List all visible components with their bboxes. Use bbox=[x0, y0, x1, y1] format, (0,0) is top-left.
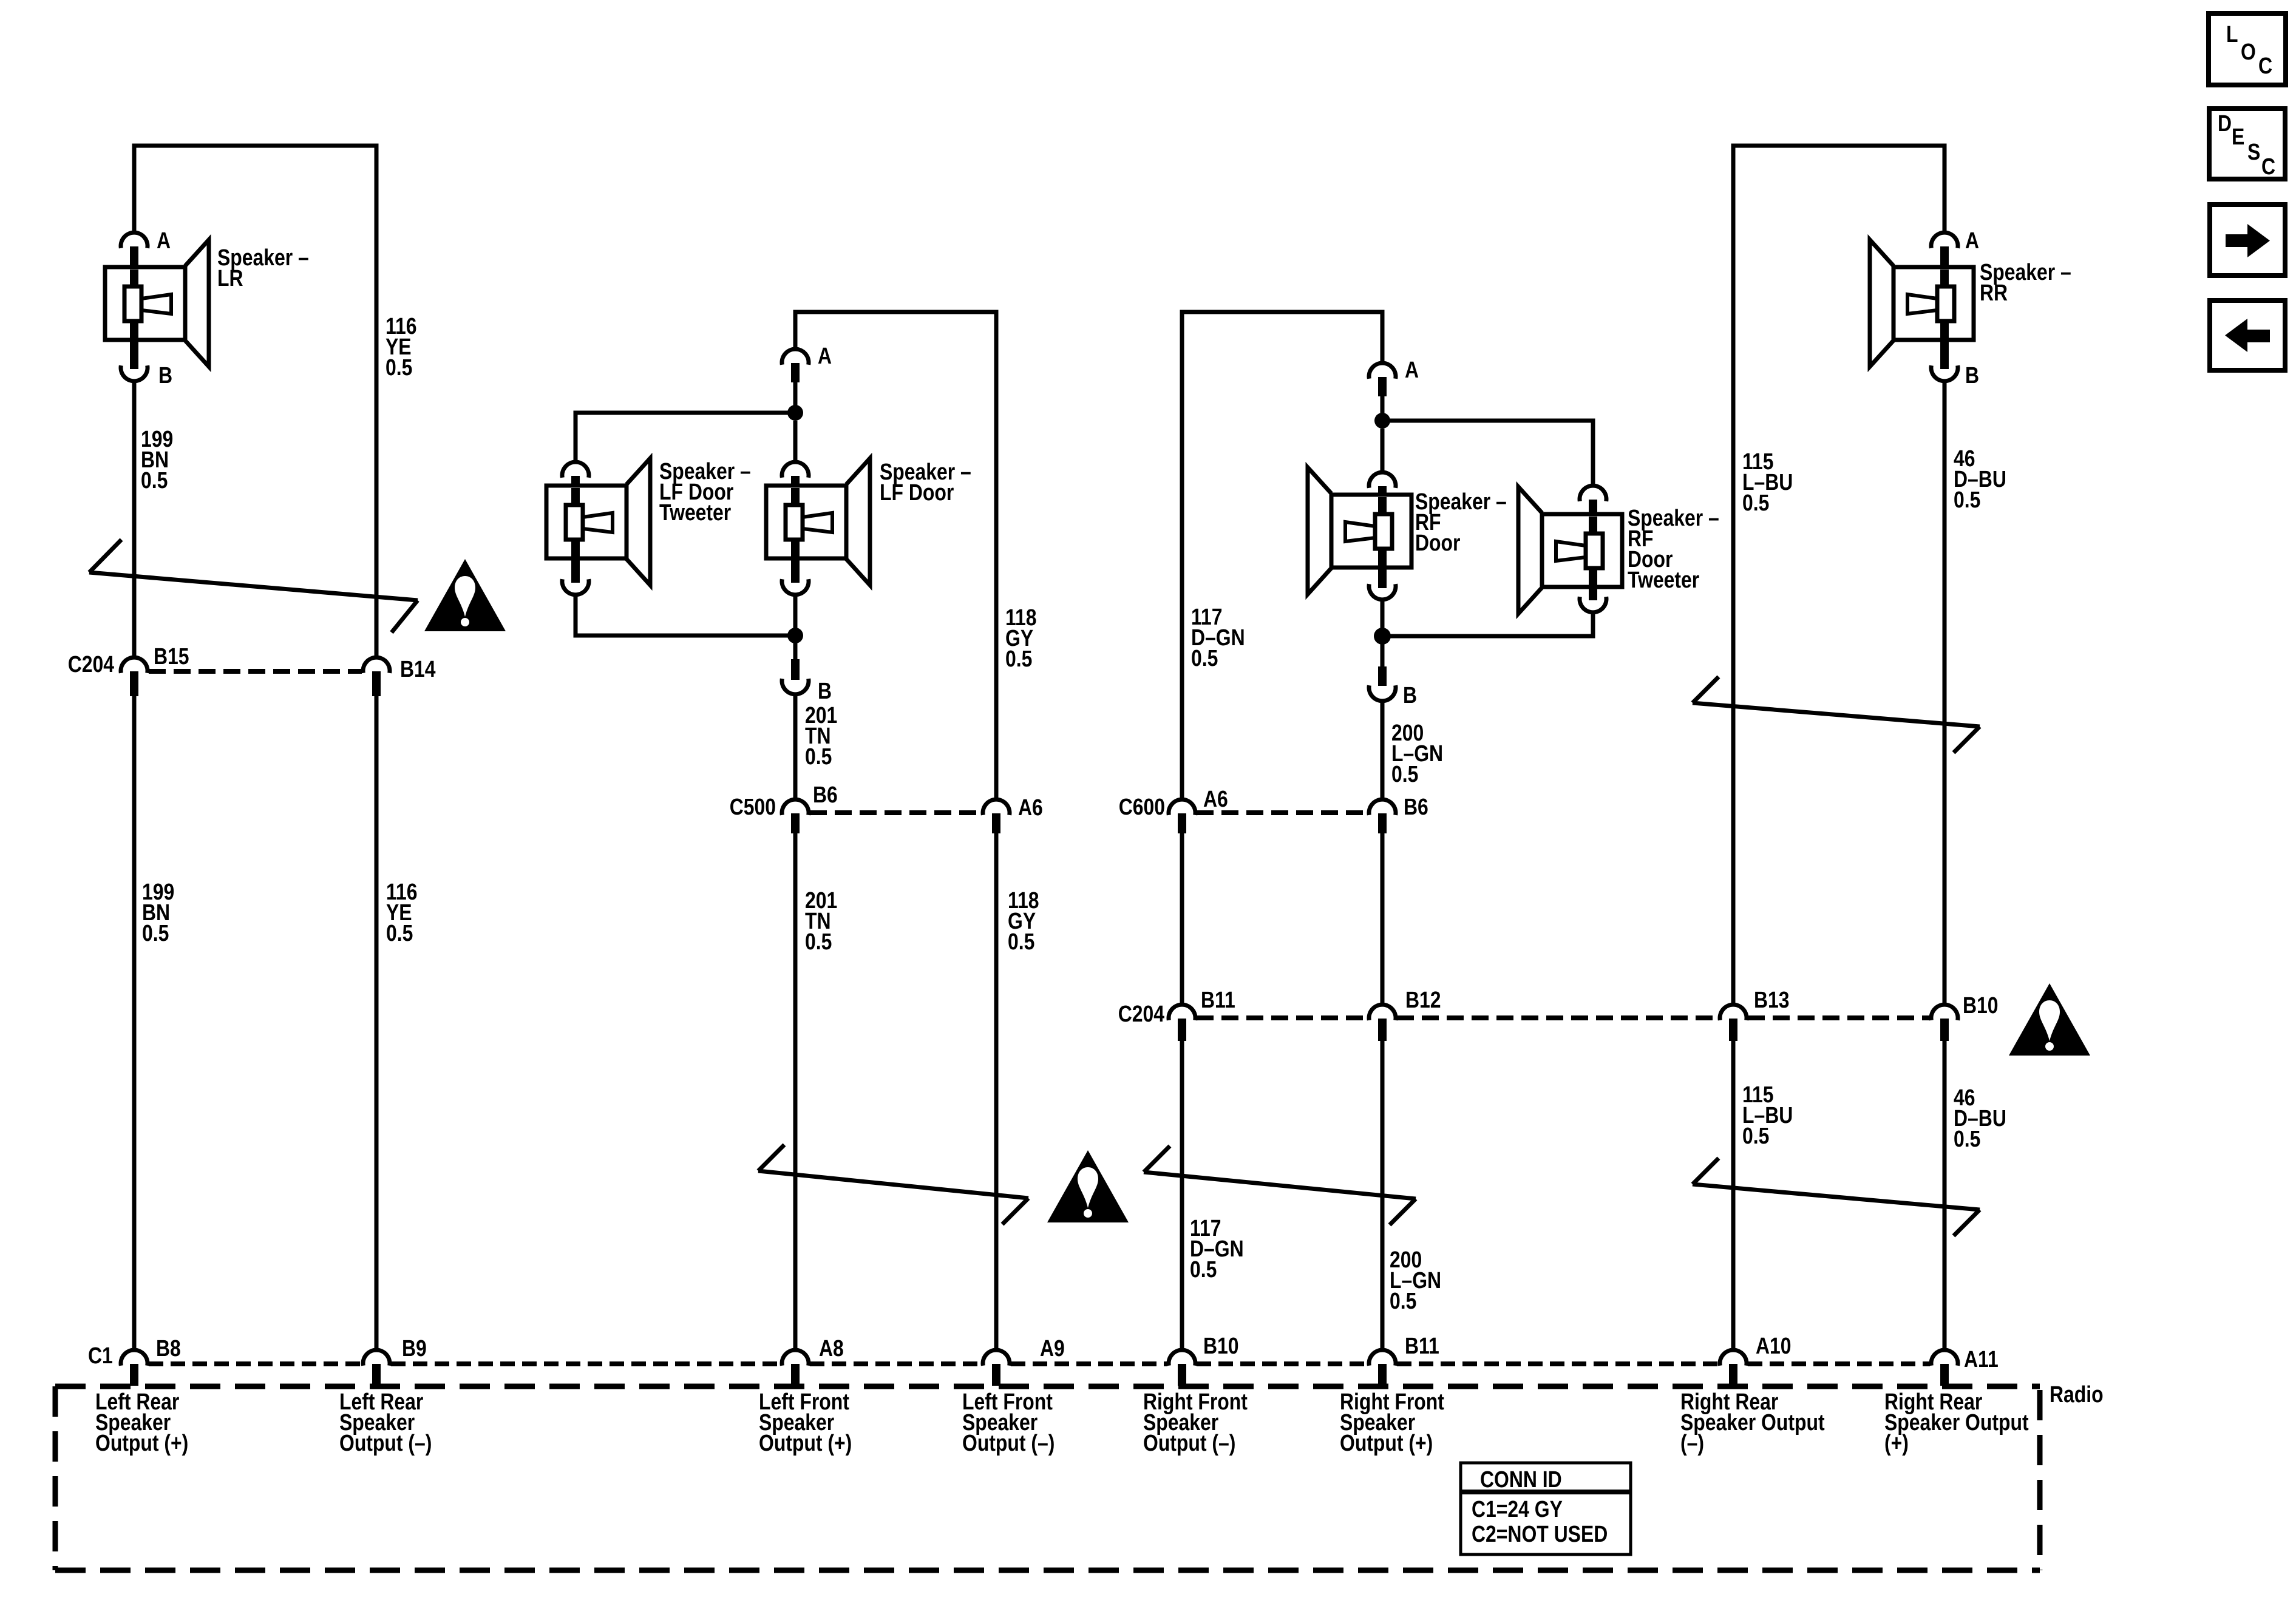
svg-text:A6: A6 bbox=[1018, 795, 1043, 820]
connector C204 pin B12 bbox=[1369, 1005, 1396, 1020]
label Speaker - LR bbox=[217, 245, 309, 291]
pin label A bbox=[1965, 228, 1979, 253]
connector C1 pin A8 bbox=[782, 1350, 809, 1366]
label 115 L-BU 0.5 upper bbox=[1742, 449, 1793, 515]
label B12 bbox=[1405, 987, 1441, 1012]
svg-text:0.5: 0.5 bbox=[1954, 1126, 1980, 1151]
wire 117 D-GN lower segment bbox=[1180, 1041, 1184, 1350]
label B10 bottom bbox=[1203, 1333, 1239, 1358]
connector C1 pin A10 bbox=[1720, 1350, 1747, 1366]
label A11 bbox=[1964, 1346, 1999, 1372]
svg-text:C: C bbox=[2261, 154, 2275, 179]
RF door speaker bottom stub bbox=[1378, 566, 1387, 588]
svg-text:A: A bbox=[818, 343, 832, 368]
svg-text:Radio: Radio bbox=[2050, 1381, 2104, 1407]
LF tweeter bottom stub bbox=[571, 557, 580, 583]
label B11 bbox=[1201, 987, 1235, 1012]
label B10 bbox=[1963, 992, 1999, 1018]
svg-text:A8: A8 bbox=[819, 1335, 844, 1361]
pin B stub bbox=[1378, 666, 1387, 686]
svg-text:C1=24 GY: C1=24 GY bbox=[1472, 1496, 1563, 1522]
label 199 BN 0.5 upper bbox=[141, 426, 173, 493]
wire 199 BN lower segment bbox=[132, 696, 137, 1350]
pin label A bbox=[818, 343, 832, 368]
label B6 bbox=[1404, 794, 1428, 819]
connector C204 dashed line (B15-B14) bbox=[149, 669, 362, 674]
LF door speaker bottom stub bbox=[791, 557, 800, 583]
label C2=NOT USED bbox=[1472, 1521, 1608, 1547]
junction node LF top bbox=[787, 405, 803, 421]
wire loop: RF speaker feed (117 D-GN / 200 L-GN) bbox=[1182, 312, 1382, 799]
warning triangle 3 bbox=[2009, 983, 2090, 1056]
connector pin A of Speaker RF bbox=[1369, 363, 1396, 379]
connector pin of RF door speaker (top) bbox=[1369, 472, 1396, 488]
connector pin B of Speaker LR bbox=[121, 365, 148, 381]
label B8 bbox=[156, 1335, 181, 1361]
connector C204 pin B10 bbox=[1931, 1005, 1958, 1020]
svg-text:LF Door: LF Door bbox=[880, 480, 954, 505]
label A6 bbox=[1018, 795, 1043, 820]
svg-text:Tweeter: Tweeter bbox=[659, 500, 732, 525]
label 117 D-GN 0.5 upper bbox=[1191, 604, 1245, 671]
pin label A bbox=[157, 228, 171, 253]
speaker RF Door Tweeter bbox=[1518, 487, 1622, 614]
wire 199 BN from pin B to C204 bbox=[132, 381, 137, 657]
label 46 D-BU 0.5 upper bbox=[1954, 446, 2006, 512]
pin A stub bbox=[130, 246, 138, 268]
connector C500 dashed line (B6-A6) bbox=[810, 810, 982, 815]
svg-text:0.5: 0.5 bbox=[1391, 761, 1418, 787]
wire LF door speaker to junction 2 bbox=[793, 595, 798, 636]
svg-text:C204: C204 bbox=[1118, 1001, 1165, 1026]
off-page continuation symbol across LF wires bbox=[758, 1145, 1028, 1224]
wire loop: LF speaker feed (201 TN / 118 GY) bbox=[795, 312, 996, 799]
label B6 bbox=[813, 782, 838, 807]
pin label B bbox=[1403, 682, 1417, 708]
svg-text:(–): (–) bbox=[1680, 1430, 1704, 1456]
connector C1 dashed line bbox=[149, 1361, 1930, 1366]
svg-text:0.5: 0.5 bbox=[805, 744, 832, 769]
svg-text:CONN ID: CONN ID bbox=[1480, 1466, 1562, 1492]
label B11 bottom bbox=[1405, 1333, 1439, 1358]
connector C204 pin B13 bbox=[1720, 1005, 1747, 1020]
label B13 bbox=[1754, 987, 1790, 1012]
connector pin of LF door speaker (top) bbox=[782, 462, 809, 478]
label 116 YE 0.5 lower bbox=[386, 879, 417, 946]
label B9 bbox=[402, 1335, 427, 1361]
svg-text:C2=NOT USED: C2=NOT USED bbox=[1472, 1521, 1608, 1547]
label A9 bbox=[1040, 1335, 1065, 1361]
svg-text:B: B bbox=[1403, 682, 1417, 708]
label C204 bbox=[68, 651, 115, 677]
svg-text:A9: A9 bbox=[1040, 1335, 1065, 1361]
radio box dashed outline bbox=[55, 1384, 2040, 1389]
svg-text:0.5: 0.5 bbox=[1954, 487, 1980, 512]
connector C600 pin A6 bbox=[1169, 799, 1195, 815]
svg-text:A: A bbox=[1405, 357, 1419, 382]
conn id table box bbox=[1461, 1463, 1631, 1554]
label 118 GY 0.5 upper bbox=[1005, 605, 1036, 671]
label C1 bbox=[88, 1343, 113, 1368]
svg-text:0.5: 0.5 bbox=[1390, 1288, 1416, 1314]
speaker LF Door Tweeter bbox=[546, 458, 650, 585]
svg-text:C600: C600 bbox=[1119, 794, 1165, 819]
wire 201 TN lower segment bbox=[793, 833, 798, 1350]
wire 116 YE lower segment bbox=[375, 696, 379, 1350]
svg-text:A10: A10 bbox=[1756, 1333, 1792, 1358]
svg-text:B6: B6 bbox=[1404, 794, 1428, 819]
svg-text:0.5: 0.5 bbox=[1742, 490, 1769, 515]
label Speaker - RF Door bbox=[1415, 489, 1507, 555]
svg-text:C1: C1 bbox=[88, 1343, 113, 1368]
wire branch to LF tweeter bbox=[576, 413, 795, 462]
junction node RF top bbox=[1374, 413, 1390, 429]
connector C1 pin A9 bbox=[983, 1350, 1010, 1366]
svg-text:Door: Door bbox=[1415, 530, 1461, 555]
svg-text:C204: C204 bbox=[68, 651, 115, 677]
svg-text:Output (–): Output (–) bbox=[962, 1430, 1055, 1456]
label 118 GY 0.5 lower bbox=[1008, 887, 1039, 954]
wire junction to LF door speaker bbox=[793, 421, 798, 462]
label 201 TN 0.5 lower bbox=[805, 887, 837, 954]
pin label B bbox=[158, 362, 172, 388]
connector pin B of RF circuit bbox=[1369, 685, 1396, 701]
connector C204 row 2 dashed line (B11-B12-B13-B10) bbox=[1197, 1015, 1930, 1020]
svg-text:B12: B12 bbox=[1405, 987, 1441, 1012]
svg-text:B11: B11 bbox=[1201, 987, 1235, 1012]
off-page continuation symbol across RR wires lower bbox=[1693, 1158, 1980, 1236]
label Speaker - LF Door bbox=[880, 459, 971, 505]
right arrow icon box bbox=[2210, 205, 2285, 276]
connector C204 pin B11 bbox=[1169, 1005, 1195, 1020]
pin B stub bbox=[791, 659, 800, 680]
connector pin A of Speaker LF bbox=[782, 349, 809, 365]
svg-text:O: O bbox=[2241, 39, 2256, 64]
label B15 bbox=[154, 643, 189, 669]
svg-text:L: L bbox=[2226, 21, 2238, 47]
wire 115 L-BU lower segment bbox=[1731, 1041, 1736, 1350]
label 46 D-BU 0.5 lower bbox=[1954, 1085, 2006, 1151]
label C204 row2 bbox=[1118, 1001, 1165, 1026]
node label Left Front Speaker Output (-) bbox=[962, 1389, 1055, 1456]
svg-text:A: A bbox=[1965, 228, 1979, 253]
connector C1 pin B9 bbox=[363, 1350, 390, 1366]
label 201 TN 0.5 upper bbox=[805, 702, 837, 769]
connector pin B of Speaker RR bbox=[1931, 365, 1958, 381]
wire branch to RF tweeter bbox=[1382, 421, 1593, 486]
label C600 bbox=[1119, 794, 1165, 819]
label Speaker - LF Door Tweeter bbox=[659, 458, 751, 525]
pin B stub bbox=[1940, 339, 1949, 369]
svg-text:B8: B8 bbox=[156, 1335, 181, 1361]
connector C600 pin B6 bbox=[1369, 799, 1396, 815]
svg-text:E: E bbox=[2232, 124, 2244, 149]
svg-text:B6: B6 bbox=[813, 782, 838, 807]
node label Right Front Speaker Output (-) bbox=[1143, 1389, 1248, 1456]
label Radio bbox=[2050, 1381, 2104, 1407]
svg-text:Output (–): Output (–) bbox=[1143, 1430, 1235, 1456]
speaker RF Door bbox=[1308, 467, 1411, 594]
node label Left Front Speaker Output (+) bbox=[759, 1389, 852, 1456]
label 200 L-GN 0.5 lower bbox=[1390, 1247, 1441, 1314]
wire 46 D-BU lower segment bbox=[1943, 1041, 1947, 1350]
wire pin A to junction bbox=[1381, 396, 1385, 421]
node label Left Rear Speaker Output (+) bbox=[95, 1389, 188, 1456]
wire loop: RR speaker feed (115 L-BU / 46 D-BU) bbox=[1733, 146, 1944, 1005]
wire 200 L-GN to C600 bbox=[1381, 701, 1385, 799]
label C1=24 GY bbox=[1472, 1496, 1563, 1522]
svg-text:RR: RR bbox=[1980, 280, 2008, 305]
connector pin of LF door tweeter (bottom) bbox=[562, 579, 589, 595]
svg-text:A6: A6 bbox=[1203, 786, 1228, 812]
wire 46 D-BU from pin B to C204 bbox=[1943, 381, 1947, 1005]
label 116 YE 0.5 upper bbox=[385, 313, 416, 380]
svg-text:LR: LR bbox=[217, 265, 243, 291]
svg-text:B: B bbox=[818, 678, 832, 703]
svg-text:0.5: 0.5 bbox=[1742, 1123, 1769, 1148]
svg-text:0.5: 0.5 bbox=[805, 929, 832, 954]
svg-text:A11: A11 bbox=[1964, 1346, 1999, 1372]
svg-text:0.5: 0.5 bbox=[385, 354, 412, 380]
pin B stub bbox=[130, 339, 138, 369]
pin label B bbox=[818, 678, 832, 703]
svg-text:0.5: 0.5 bbox=[1190, 1256, 1217, 1282]
label C500 bbox=[730, 794, 776, 819]
wire junction 2 down to pin B bbox=[793, 636, 798, 662]
connector pin A of Speaker LR bbox=[121, 232, 148, 248]
wire tweeter return branch bbox=[1382, 612, 1593, 636]
wire 200 L-GN mid segment bbox=[1381, 833, 1385, 1005]
svg-text:Output (+): Output (+) bbox=[1340, 1430, 1433, 1456]
off-page continuation symbol across LR wires bbox=[89, 540, 418, 632]
connector C500 pin B6 bbox=[782, 799, 809, 815]
off-page continuation symbol across RR wires upper bbox=[1693, 677, 1980, 753]
wire pin A to junction bbox=[793, 382, 798, 413]
LOC icon box bbox=[2209, 13, 2286, 85]
svg-text:0.5: 0.5 bbox=[1008, 929, 1034, 954]
connector C204 pin B15 bbox=[121, 657, 148, 673]
connector C1 pin B10 bbox=[1169, 1350, 1195, 1366]
svg-text:Tweeter: Tweeter bbox=[1628, 567, 1700, 592]
junction node RF bottom bbox=[1374, 628, 1391, 645]
node label Right Front Speaker Output (+) bbox=[1340, 1389, 1444, 1456]
label A10 bbox=[1756, 1333, 1792, 1358]
svg-text:B: B bbox=[158, 362, 172, 388]
left arrow icon box bbox=[2210, 300, 2285, 370]
label 117 D-GN 0.5 lower bbox=[1190, 1215, 1244, 1282]
svg-text:S: S bbox=[2247, 139, 2260, 164]
wire RF door speaker to junction 2 bbox=[1381, 600, 1385, 636]
wire 200 L-GN lower segment bbox=[1381, 1041, 1385, 1350]
svg-text:B13: B13 bbox=[1754, 987, 1790, 1012]
svg-text:0.5: 0.5 bbox=[1191, 645, 1218, 671]
label CONN ID bbox=[1480, 1466, 1562, 1492]
connector C500 pin A6 bbox=[983, 799, 1010, 815]
connector pin of RF door speaker (bottom) bbox=[1369, 584, 1396, 600]
connector pin of LF door tweeter (top) bbox=[562, 462, 589, 478]
svg-text:(+): (+) bbox=[1884, 1430, 1909, 1456]
svg-text:D: D bbox=[2218, 110, 2232, 136]
DESC icon box bbox=[2209, 109, 2285, 179]
label Speaker - RF Door Tweeter bbox=[1628, 505, 1719, 592]
svg-text:0.5: 0.5 bbox=[141, 467, 168, 493]
junction node LF bottom bbox=[787, 628, 803, 643]
speaker LR bbox=[105, 240, 209, 367]
svg-text:B15: B15 bbox=[154, 643, 189, 669]
connector C1 pin B11 bbox=[1369, 1350, 1396, 1366]
connector C204 pin B14 bbox=[363, 657, 390, 673]
svg-text:C500: C500 bbox=[730, 794, 776, 819]
connector pin B of LF circuit bbox=[782, 679, 809, 694]
pin label A bbox=[1405, 357, 1419, 382]
warning triangle 2 bbox=[1047, 1150, 1129, 1222]
conn id table header line bbox=[1461, 1490, 1631, 1494]
wire 118 GY lower segment bbox=[994, 833, 999, 1350]
svg-text:C: C bbox=[2258, 53, 2272, 78]
off-page continuation symbol across RF wires bbox=[1144, 1146, 1416, 1225]
label B14 bbox=[400, 656, 436, 682]
speaker LF Door bbox=[766, 458, 870, 585]
pin label B bbox=[1965, 362, 1979, 388]
label A8 bbox=[819, 1335, 844, 1361]
node label Right Rear Speaker Output (+) bbox=[1884, 1389, 2029, 1456]
node label Right Rear Speaker Output (-) bbox=[1680, 1389, 1825, 1456]
svg-text:B9: B9 bbox=[402, 1335, 427, 1361]
svg-text:0.5: 0.5 bbox=[386, 920, 413, 946]
svg-text:B10: B10 bbox=[1963, 992, 1999, 1018]
wire loop: LR speaker feed (199 BN / 116 YE) bbox=[134, 146, 376, 657]
warning triangle 1 bbox=[424, 559, 506, 631]
label A6 bbox=[1203, 786, 1228, 812]
svg-text:B: B bbox=[1965, 362, 1979, 388]
wire 201 TN to C500 bbox=[793, 694, 798, 799]
label 200 L-GN 0.5 upper bbox=[1391, 720, 1443, 787]
wire junction to RF door speaker bbox=[1381, 429, 1385, 472]
svg-text:B14: B14 bbox=[400, 656, 436, 682]
connector pin A of Speaker RR bbox=[1931, 232, 1958, 248]
label Speaker - RR bbox=[1980, 259, 2071, 305]
svg-text:0.5: 0.5 bbox=[1005, 646, 1032, 671]
svg-text:Output (+): Output (+) bbox=[95, 1430, 188, 1456]
label 115 L-BU 0.5 lower bbox=[1742, 1082, 1793, 1148]
connector C1 pin A11 bbox=[1931, 1350, 1958, 1366]
wire junction 2 down to pin B bbox=[1381, 636, 1385, 668]
RF tweeter bottom stub bbox=[1589, 586, 1597, 600]
connector pin of RF door tweeter (bottom) bbox=[1580, 597, 1606, 612]
connector pin of LF door speaker (bottom) bbox=[782, 579, 809, 595]
wire tweeter return branch bbox=[576, 595, 795, 636]
svg-text:B10: B10 bbox=[1203, 1333, 1239, 1358]
svg-text:Output (–): Output (–) bbox=[339, 1430, 432, 1456]
svg-text:A: A bbox=[157, 228, 171, 253]
svg-text:0.5: 0.5 bbox=[142, 920, 169, 946]
connector pin of RF door tweeter (top) bbox=[1580, 486, 1606, 501]
svg-text:B11: B11 bbox=[1405, 1333, 1439, 1358]
wire 117 D-GN mid segment bbox=[1180, 833, 1184, 1005]
node label Left Rear Speaker Output (-) bbox=[339, 1389, 432, 1456]
connector C1 pin B8 bbox=[121, 1350, 148, 1366]
connector C600 dashed line (A6-B6) bbox=[1197, 810, 1368, 815]
svg-text:Output (+): Output (+) bbox=[759, 1430, 852, 1456]
label 199 BN 0.5 lower bbox=[142, 879, 174, 946]
speaker RR bbox=[1870, 240, 1974, 367]
